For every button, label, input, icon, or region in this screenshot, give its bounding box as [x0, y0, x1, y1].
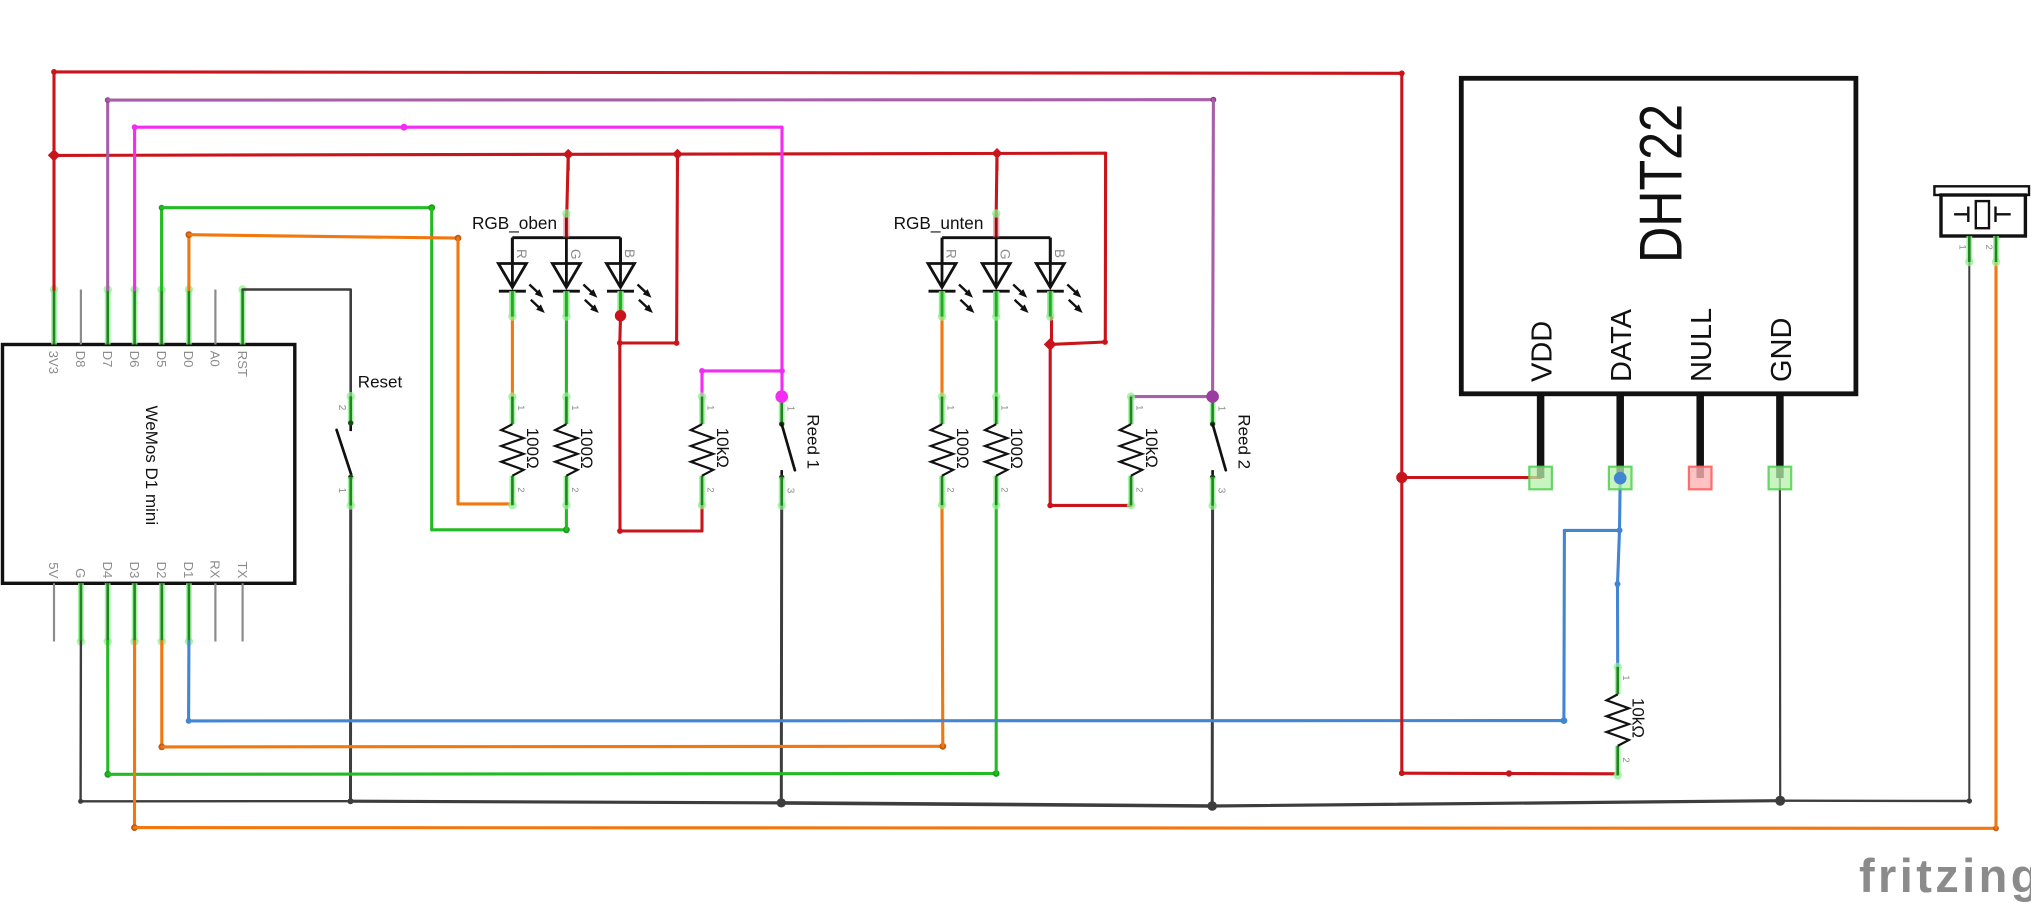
- U2 pin NULL lead: [1696, 394, 1704, 478]
- resistor R6 10k&#937;: [1120, 392, 1161, 509]
- wire green riser into R2 pin2: [565, 504, 568, 529]
- LED RGB_unten B: [1036, 238, 1082, 321]
- U1 pin D8 (top, n/c): [80, 290, 82, 345]
- svg-text:1: 1: [705, 405, 716, 410]
- svg-text:2: 2: [515, 487, 526, 492]
- svg-text:B: B: [1052, 249, 1067, 258]
- svg-text:D6: D6: [127, 351, 142, 368]
- svg-text:G: G: [73, 568, 88, 578]
- svg-text:2: 2: [569, 487, 580, 492]
- svg-text:R: R: [944, 249, 959, 259]
- wire black crystal pin1 riser: [1968, 262, 1970, 801]
- U2 pad NULL: [1689, 467, 1712, 490]
- node red corner 4: [1102, 339, 1108, 345]
- wire green oben G LED to R2: [565, 317, 568, 397]
- resistor R2 100&#937;: [555, 392, 596, 509]
- svg-text:1: 1: [1956, 245, 1967, 250]
- RGB common-anode bracket RGB_oben: [512, 209, 620, 263]
- svg-text:100Ω: 100Ω: [523, 428, 542, 469]
- wire black ground run to Reed1: [351, 801, 782, 803]
- wire blue riser: [1562, 530, 1566, 720]
- wire red unten B drop 2: [1049, 344, 1052, 505]
- wire blue jog to DATA: [1564, 529, 1619, 532]
- node red corner 6: [1399, 770, 1405, 776]
- node orange corner dot D2: [158, 744, 165, 751]
- U1 pin TX (bottom, n/c): [242, 583, 244, 641]
- U1 pin 5V (bottom, n/c): [53, 583, 55, 641]
- svg-text:1: 1: [336, 488, 347, 494]
- svg-text:5V: 5V: [46, 562, 61, 578]
- svg-text:Reed 1: Reed 1: [804, 414, 823, 469]
- wire black DHT22 GND down: [1779, 478, 1781, 801]
- wire 3V3 up to junction: [52, 155, 55, 289]
- LED RGB_unten G: [982, 238, 1028, 321]
- wire purple Reed2 to 10k R6 pin1: [1131, 395, 1213, 398]
- svg-text:Reed 2: Reed 2: [1234, 414, 1253, 469]
- wire orange D3 bottom run: [135, 826, 1997, 830]
- svg-text:RST: RST: [235, 351, 250, 377]
- node blue bendpoint: [1617, 527, 1623, 533]
- wire black G to Reset: [81, 800, 351, 802]
- wire red jog left: [620, 341, 677, 344]
- wire purple drop to Reed 2 pin 1: [1211, 100, 1215, 397]
- junction rail / RGB_oben G: [563, 149, 574, 160]
- wire red oben B to bend: [618, 316, 622, 343]
- wire red top rail 3V3 to DHT22 VDD: [54, 72, 1402, 73]
- resistor R3 10k&#937;: [691, 392, 732, 509]
- node red corner: [674, 340, 680, 346]
- LED RGB_oben B: [607, 238, 653, 321]
- svg-text:2: 2: [945, 487, 956, 492]
- wire green riser to R5 pin2: [995, 504, 998, 773]
- wire orange D2 down: [160, 642, 163, 747]
- wire green D5 riser: [160, 208, 163, 290]
- wire orange oben R LED to R1: [511, 317, 514, 397]
- node black corner at crystal: [1967, 798, 1972, 803]
- wire black ground to crystal: [1780, 800, 1969, 803]
- U1 pin G (bottom): [77, 583, 85, 645]
- wire blue D1 to DHT22 DATA: [189, 719, 1564, 722]
- wire magenta D6 to Reed 1: [135, 126, 782, 129]
- LED RGB_oben R: [498, 238, 544, 321]
- wire green unten G LED to R5: [995, 317, 998, 397]
- U1 pin D6 (top): [130, 285, 138, 344]
- wire red rail end drop: [1104, 153, 1107, 341]
- svg-text:D7: D7: [100, 351, 115, 368]
- svg-text:1: 1: [515, 405, 526, 410]
- svg-text:WeMos D1 mini: WeMos D1 mini: [142, 406, 161, 526]
- node green corner dot 2: [428, 204, 435, 211]
- wire red riser to top rail: [52, 72, 55, 155]
- U2 pin GND lead: [1776, 394, 1784, 478]
- svg-text:NULL: NULL: [1686, 308, 1718, 382]
- node blue bendpoint 2: [1615, 581, 1621, 587]
- node red bendpoint: [1506, 770, 1512, 776]
- node magenta corner dot: [132, 124, 138, 130]
- U1 pin D0 (top): [185, 285, 193, 344]
- wire blue DATA pad down to R7: [1618, 478, 1621, 667]
- U2 pad VDD: [1529, 467, 1552, 490]
- svg-text:Reset: Reset: [358, 373, 403, 392]
- node blue corner dot: [1561, 717, 1568, 724]
- U2 pin DATA lead: [1616, 394, 1624, 478]
- svg-text:100Ω: 100Ω: [1007, 428, 1026, 469]
- junction rail / RGB_unten G: [992, 148, 1003, 159]
- wire red to R7 pin2: [1402, 772, 1618, 776]
- wire red rail drop to unten G LED: [995, 153, 999, 213]
- wire green to R2 bottom: [432, 528, 567, 531]
- node top-left corner dot: [51, 69, 57, 75]
- svg-text:2: 2: [336, 405, 347, 411]
- svg-text:D2: D2: [154, 562, 169, 579]
- wire red rail drop to oben G LED: [567, 154, 568, 213]
- svg-text:G: G: [568, 249, 583, 260]
- svg-text:1: 1: [1620, 675, 1631, 680]
- svg-text:D3: D3: [127, 562, 142, 579]
- node orange corner at R4: [939, 743, 946, 750]
- node red rail right corner dot: [1399, 70, 1405, 76]
- wire green D4 down: [106, 642, 109, 775]
- resistor R7 10k&#937;: [1607, 663, 1648, 780]
- node green corner at R5: [993, 770, 1000, 777]
- svg-text:D0: D0: [181, 351, 196, 368]
- U1 pin D5 (top): [157, 285, 165, 344]
- wire black Reed1 pin3 down: [780, 506, 783, 803]
- wire magenta branch to 10k R3: [702, 371, 782, 397]
- U1 pin D2 (bottom): [158, 583, 166, 645]
- switch Reed 2: [1206, 390, 1253, 510]
- wire green D5 horizontal: [162, 206, 432, 209]
- node black corner dot: [78, 799, 83, 804]
- wire orange D2 to R4: [162, 745, 943, 749]
- wire purple D7 to Reed 2: [108, 98, 1214, 102]
- wire orange D0 riser: [187, 235, 190, 290]
- wire green drop: [430, 208, 433, 530]
- wire blue D1 down: [187, 642, 190, 721]
- node red corner 3: [617, 528, 623, 534]
- svg-text:2: 2: [999, 487, 1010, 492]
- wire red cap below junction a: [567, 154, 570, 170]
- wire red to DHT22 VDD pad: [1402, 476, 1541, 479]
- junction oben B cathode: [615, 310, 626, 321]
- svg-text:B: B: [622, 249, 637, 258]
- svg-text:100Ω: 100Ω: [953, 428, 972, 469]
- wire black ground run to DHT22 GND: [1212, 801, 1780, 806]
- svg-text:1: 1: [999, 405, 1010, 410]
- svg-text:RGB_oben: RGB_oben: [472, 213, 557, 233]
- junction DATA pad: [1614, 472, 1627, 485]
- U1 pin D4 (bottom): [104, 583, 112, 645]
- node magenta bendpoint: [401, 124, 408, 131]
- wire red rail drop oben B branch: [675, 154, 679, 343]
- wire red to R6 pin2: [1050, 504, 1131, 507]
- svg-text:DHT22: DHT22: [1628, 104, 1695, 263]
- U1 pin RST (top): [238, 285, 246, 344]
- wire orange unten R LED to R4: [940, 317, 943, 397]
- wire black Reed2 pin3 down: [1211, 506, 1214, 806]
- svg-text:DATA: DATA: [1606, 308, 1638, 382]
- svg-text:2: 2: [1983, 245, 1994, 250]
- svg-text:100Ω: 100Ω: [577, 428, 596, 469]
- RGB common-anode bracket RGB_unten: [942, 209, 1050, 263]
- svg-text:10kΩ: 10kΩ: [713, 428, 732, 468]
- node purple corner dot 2: [1211, 97, 1217, 103]
- svg-text:1: 1: [1215, 406, 1226, 412]
- wire green D4 to R5: [108, 772, 996, 776]
- wire black ground run to Reed2: [781, 803, 1212, 806]
- wire orange riser to R4 pin2: [940, 504, 944, 746]
- node orange corner dot: [186, 231, 193, 238]
- U1 pin RX (bottom, n/c): [214, 583, 216, 641]
- U2 pad DATA: [1609, 467, 1632, 490]
- svg-text:TX: TX: [235, 562, 250, 579]
- wire red to R3 pin2: [620, 506, 702, 531]
- svg-text:D1: D1: [181, 562, 196, 579]
- wire black Reset pin1 down: [349, 506, 352, 802]
- node magenta corner at R3: [699, 368, 705, 374]
- wire orange D0 horizontal: [189, 235, 458, 238]
- wire orange drop to R1: [456, 238, 459, 504]
- wire orange to R1 pin2: [458, 502, 512, 505]
- junction ground / Reed 1: [777, 798, 786, 807]
- svg-text:VDD: VDD: [1527, 321, 1559, 382]
- junction VDD node: [1396, 472, 1407, 483]
- junction 3V3 net: [48, 149, 60, 161]
- svg-text:1: 1: [945, 405, 956, 410]
- junction rail / oben-B branch: [672, 149, 683, 160]
- resistor R5 100&#937;: [985, 392, 1026, 509]
- wire red LED supply rail: [54, 153, 1106, 155]
- wire purple D7 riser: [106, 100, 109, 289]
- node red corner 2: [617, 340, 623, 346]
- node green corner at R2: [563, 526, 570, 533]
- svg-text:10kΩ: 10kΩ: [1629, 698, 1648, 738]
- U1 pin 3V3 (top): [50, 285, 58, 344]
- wire red unten B drop: [1050, 317, 1053, 345]
- svg-text:fritzing: fritzing: [1859, 849, 2031, 902]
- IC U2 DHT22 body: [1461, 78, 1856, 394]
- U1 pin D3 (bottom): [130, 583, 138, 645]
- node orange corner dot D3: [131, 824, 138, 831]
- svg-text:2: 2: [1134, 487, 1145, 492]
- wire orange D3 down: [133, 642, 136, 828]
- svg-text:D4: D4: [100, 562, 115, 579]
- LED RGB_oben G: [552, 238, 598, 321]
- switch Reset (SPST): [336, 392, 355, 510]
- wire magenta D6 riser: [133, 127, 136, 289]
- node orange corner dot 2: [455, 235, 462, 242]
- node green corner dot: [159, 205, 165, 211]
- IC U1 WeMos D1 mini body: [3, 345, 295, 584]
- svg-text:2: 2: [1620, 757, 1631, 762]
- junction unten B cathode: [1044, 338, 1057, 351]
- LED RGB_unten R: [928, 238, 974, 321]
- svg-text:RX: RX: [208, 560, 223, 579]
- svg-text:1: 1: [785, 406, 796, 412]
- wire red jog to unten B: [1050, 342, 1105, 344]
- U1 pin D1 (bottom): [185, 583, 193, 645]
- svg-text:RGB_unten: RGB_unten: [894, 213, 984, 233]
- svg-text:R: R: [514, 249, 529, 259]
- svg-text:1: 1: [569, 405, 580, 410]
- node black junction Reset: [348, 798, 354, 804]
- wire red drop: [618, 343, 621, 531]
- wire orange riser to crystal pin2: [1994, 262, 1997, 828]
- wire red cap below junction c: [995, 153, 998, 170]
- svg-text:10kΩ: 10kΩ: [1142, 428, 1161, 468]
- wire red drop to VDD junction: [1400, 73, 1403, 477]
- U1 pin A0 (top, n/c): [214, 290, 216, 345]
- svg-text:A0: A0: [208, 351, 223, 367]
- node red corner 5: [1047, 503, 1053, 509]
- resistor R4 100&#937;: [931, 392, 972, 509]
- svg-text:3: 3: [1215, 488, 1226, 494]
- U2 pad GND: [1769, 467, 1792, 490]
- svg-text:D8: D8: [73, 351, 88, 368]
- wire red VDD junction down: [1400, 478, 1403, 774]
- wire red cap below junction b: [676, 154, 679, 170]
- crystal Y1 (piezo sensor): [1934, 186, 2029, 266]
- svg-text:GND: GND: [1766, 318, 1798, 382]
- node orange corner at crystal: [1993, 825, 1999, 831]
- wire magenta drop to Reed 1: [780, 127, 783, 371]
- switch Reed 1: [775, 390, 822, 510]
- svg-text:3V3: 3V3: [46, 351, 61, 374]
- svg-text:3: 3: [785, 488, 796, 494]
- node green corner dot D4: [104, 771, 111, 778]
- svg-text:2: 2: [705, 487, 716, 492]
- node purple corner dot: [105, 97, 111, 103]
- wire magenta into Reed 1 pin 1: [780, 371, 783, 397]
- svg-text:1: 1: [1134, 405, 1145, 410]
- svg-text:G: G: [998, 249, 1013, 260]
- wire black G down: [79, 642, 82, 802]
- svg-text:D5: D5: [154, 351, 169, 368]
- node blue corner dot D1: [186, 718, 192, 724]
- junction ground / Reed 2: [1207, 801, 1217, 811]
- node magenta branch corner: [779, 368, 785, 374]
- junction ground / DHT22 GND: [1775, 796, 1785, 806]
- U2 pin VDD lead: [1537, 394, 1545, 478]
- U1 pin D7 (top): [104, 285, 112, 344]
- wire RST to Reset switch: [243, 290, 351, 397]
- resistor R1 100&#937;: [501, 392, 542, 509]
